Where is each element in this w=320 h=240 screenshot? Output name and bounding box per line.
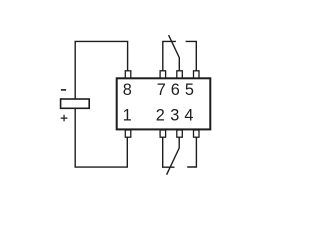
- IC U1 body: [117, 78, 211, 129]
- pin 2 stub: [160, 130, 166, 137]
- pin 3 stub: [177, 130, 183, 137]
- switch S1 arm (top, from pin 6): [169, 35, 180, 71]
- svg-text:2: 2: [156, 107, 165, 125]
- svg-text:5: 5: [185, 81, 194, 99]
- svg-text:1: 1: [123, 107, 132, 125]
- wire: pin 4 drop with left bend: [187, 137, 196, 167]
- label: plus polarity: [61, 115, 68, 122]
- svg-text:8: 8: [123, 81, 132, 99]
- pin 1 stub: [125, 130, 131, 137]
- battery B1 (box element on left wire): [61, 99, 90, 108]
- label: minus polarity: [61, 89, 66, 91]
- switch S2 arm (bottom, from pin 3): [167, 137, 180, 175]
- pin 8 stub: [125, 71, 131, 78]
- svg-text:4: 4: [184, 107, 193, 125]
- svg-text:3: 3: [170, 107, 179, 125]
- pin 5 stub: [194, 71, 200, 78]
- wire: pin 2 drop and fixed contact: [163, 137, 175, 167]
- pin 4 stub: [194, 130, 200, 137]
- wire: pin 7 riser and fixed contact: [163, 41, 176, 71]
- wire: battery loop (top rail, left rail, bottom rail): [75, 41, 127, 167]
- svg-text:6: 6: [171, 81, 180, 99]
- wire: pin 5 riser with left bend: [186, 41, 197, 71]
- pin 7 stub: [160, 71, 166, 78]
- svg-text:7: 7: [157, 81, 166, 99]
- pin 6 stub: [177, 71, 183, 78]
